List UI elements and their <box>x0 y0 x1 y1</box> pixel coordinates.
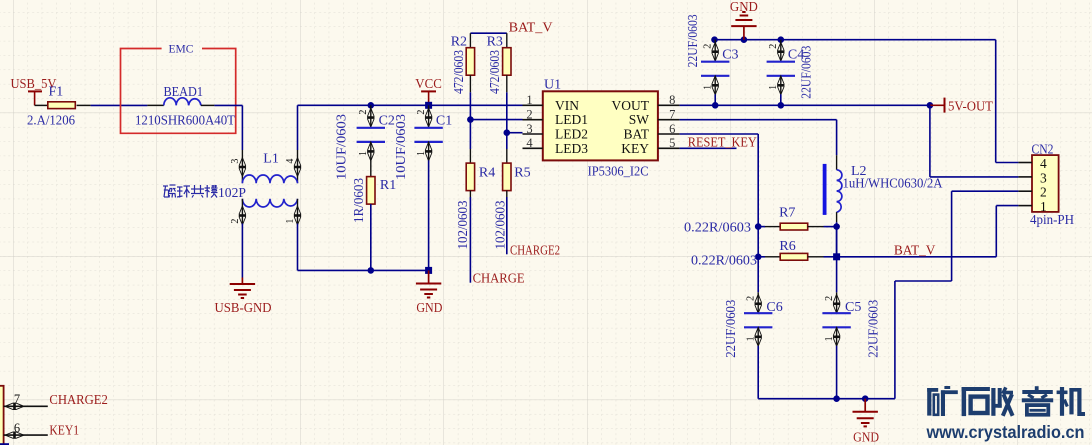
svg-text:2: 2 <box>746 296 757 301</box>
EMC box <box>121 49 236 134</box>
svg-text:1: 1 <box>358 151 369 156</box>
value 22UF/0603 <box>724 300 739 358</box>
svg-text:BAT_V: BAT_V <box>509 20 553 35</box>
svg-text:IP5306_I2C: IP5306_I2C <box>588 164 649 179</box>
power port USB_5V <box>11 77 57 105</box>
junction <box>711 36 718 43</box>
junction <box>712 102 719 109</box>
wire SW <box>680 120 837 156</box>
wire <box>757 257 759 293</box>
svg-text:BAT: BAT <box>623 127 649 142</box>
svg-text:CHARGE2: CHARGE2 <box>510 243 560 258</box>
net label CHARGE2 <box>510 243 560 258</box>
capacitor C1 <box>414 105 442 161</box>
svg-text:EMC: EMC <box>169 44 194 56</box>
wire CN2 pin1 to BAT_V <box>996 205 1018 207</box>
designator C3 <box>722 47 738 62</box>
svg-text:2: 2 <box>1040 185 1047 200</box>
junction <box>504 129 511 136</box>
value 472/0603 <box>452 50 467 94</box>
svg-text:3: 3 <box>1040 170 1047 185</box>
value 22UF/0603 <box>686 14 701 67</box>
resistor R5 <box>503 149 511 197</box>
junction <box>833 253 840 260</box>
ground GND bottom <box>853 399 880 445</box>
designator R7 <box>779 206 795 221</box>
CN2 pins <box>1018 156 1047 214</box>
svg-text:C6: C6 <box>766 300 782 315</box>
wire <box>836 257 838 293</box>
junction <box>833 395 840 402</box>
wire <box>836 222 838 226</box>
wire <box>506 133 508 149</box>
designator C1 <box>436 113 452 128</box>
capacitor C5 <box>822 292 850 346</box>
wire <box>77 104 148 106</box>
svg-text:7: 7 <box>669 107 675 121</box>
svg-text:BAT_V: BAT_V <box>894 243 936 258</box>
svg-text:2: 2 <box>768 44 779 49</box>
svg-text:BEAD1: BEAD1 <box>164 85 204 100</box>
inductor L1 <box>230 105 301 225</box>
wire BAT_V <box>837 206 997 257</box>
value 0.22R/0603 <box>684 220 751 235</box>
ground USB-GND <box>215 278 272 316</box>
wire <box>241 224 243 278</box>
svg-text:GND: GND <box>416 301 442 316</box>
svg-text:22UF/0603: 22UF/0603 <box>800 46 815 99</box>
resistor R4 <box>466 149 474 197</box>
svg-text:1: 1 <box>746 336 757 341</box>
svg-text:2: 2 <box>824 296 835 301</box>
designator C2 <box>379 113 395 128</box>
designator L2 <box>851 164 867 179</box>
svg-text:C5: C5 <box>845 300 861 315</box>
value 1uH/WHC0630/2A <box>843 177 944 192</box>
designator R5 <box>514 165 530 180</box>
watermark url <box>926 422 1085 442</box>
connector fragment <box>0 386 4 445</box>
svg-text:102P: 102P <box>218 186 246 201</box>
svg-text:SW: SW <box>629 112 650 127</box>
power port VCC <box>415 77 442 105</box>
value 102P <box>218 186 246 201</box>
capacitor C6 <box>744 292 772 346</box>
wire <box>470 32 506 34</box>
wire <box>428 160 430 270</box>
svg-text:8: 8 <box>669 93 675 107</box>
svg-text:R3: R3 <box>487 34 503 49</box>
svg-text:2: 2 <box>416 110 427 115</box>
pin 6 KEY1 <box>4 421 48 438</box>
watermark logo 矿石收音机 (drawn) <box>927 386 1085 416</box>
U1 pins <box>523 93 680 156</box>
svg-text:R2: R2 <box>451 34 467 49</box>
wire <box>370 204 372 270</box>
svg-text:U1: U1 <box>544 78 561 93</box>
resistor R3 <box>503 33 511 92</box>
svg-text:3: 3 <box>526 122 532 136</box>
svg-text:KEY1: KEY1 <box>49 423 79 438</box>
wire LED2 <box>507 132 523 134</box>
value 10UF/0603 <box>394 114 409 180</box>
junction <box>467 116 474 123</box>
wire <box>758 346 895 399</box>
value 磁环共模 (drawn) <box>163 185 218 198</box>
svg-text:GND: GND <box>853 430 879 445</box>
junction <box>425 267 432 274</box>
svg-text:6: 6 <box>669 122 675 136</box>
value 102/0603 <box>494 201 509 250</box>
wire CN2 pin3 to 5V-OUT <box>930 105 1019 177</box>
inductor L2 <box>823 155 842 222</box>
net label KEY1 <box>49 423 79 438</box>
junction <box>833 223 840 230</box>
svg-text:C1: C1 <box>436 113 452 128</box>
designator R4 <box>479 165 495 180</box>
svg-text:1: 1 <box>1040 199 1047 214</box>
wire GND rail <box>715 39 996 41</box>
svg-text:4: 4 <box>526 136 533 150</box>
wire <box>714 94 716 105</box>
wire <box>836 227 838 257</box>
designator F1 <box>49 85 64 100</box>
net label CHARGE <box>473 272 525 287</box>
svg-text:472/0603: 472/0603 <box>488 50 503 94</box>
svg-text:L1: L1 <box>263 152 279 167</box>
capacitor C2 <box>357 105 385 161</box>
net label BAT_V <box>509 20 553 35</box>
svg-text:4: 4 <box>1040 156 1047 171</box>
svg-text:GND: GND <box>730 0 758 15</box>
wire <box>469 120 471 149</box>
svg-text:4: 4 <box>285 159 296 164</box>
wire LED1 <box>470 119 522 121</box>
designator C5 <box>845 300 861 315</box>
ground GND <box>416 270 443 315</box>
wire CHARGE <box>469 197 471 283</box>
value IP5306_I2C <box>588 164 649 179</box>
svg-text:R6: R6 <box>779 239 795 254</box>
svg-text:1R/0603: 1R/0603 <box>352 178 367 223</box>
designator R3 <box>487 34 503 49</box>
junction <box>741 36 748 43</box>
junction <box>778 36 785 43</box>
power port 5V-OUT <box>930 98 994 115</box>
designator C4 <box>788 47 804 62</box>
svg-text:RESET_KEY: RESET_KEY <box>688 135 757 150</box>
wire <box>0 443 9 445</box>
wire CN2 pin2 to GND <box>895 191 1019 399</box>
wire <box>506 92 508 132</box>
resistor R6 <box>758 253 836 260</box>
wire <box>370 160 372 176</box>
svg-text:R4: R4 <box>479 165 495 180</box>
wire RESET_KEY <box>680 147 737 149</box>
connector CN2 body <box>1032 155 1059 212</box>
wire VIN rail <box>298 104 523 106</box>
net label BAT_V <box>894 243 936 258</box>
svg-text:LED1: LED1 <box>555 112 588 127</box>
designator BEAD1 <box>164 85 204 100</box>
designator R6 <box>779 239 795 254</box>
svg-text:0.22R/0603: 0.22R/0603 <box>684 220 751 235</box>
junction <box>862 395 869 402</box>
net label CHARGE2 <box>49 393 108 408</box>
svg-text:0.22R/0603: 0.22R/0603 <box>691 253 757 268</box>
value 472/0603 <box>488 50 503 94</box>
wire <box>35 104 48 106</box>
wire <box>836 227 838 257</box>
wire <box>780 94 782 105</box>
junction <box>368 102 375 109</box>
wire <box>214 105 242 150</box>
svg-text:C2: C2 <box>379 113 395 128</box>
value 2.A/1206 <box>27 114 75 129</box>
svg-text:C3: C3 <box>722 47 738 62</box>
IC U1 IP5306_I2C body <box>543 91 658 160</box>
svg-text:102/0603: 102/0603 <box>456 201 471 250</box>
designator R2 <box>451 34 467 49</box>
junction <box>755 253 762 260</box>
junction <box>755 223 762 230</box>
value 10UF/0603 <box>335 114 350 180</box>
wire <box>469 92 471 119</box>
ground GND top <box>730 0 758 40</box>
value 22UF/0603 <box>800 46 815 99</box>
svg-text:3: 3 <box>230 159 241 164</box>
resistor R1 <box>367 177 375 205</box>
svg-text:1uH/WHC0630/2A: 1uH/WHC0630/2A <box>843 177 944 192</box>
svg-text:22UF/0603: 22UF/0603 <box>724 300 739 358</box>
ferrite bead BEAD1 <box>147 98 214 106</box>
junction <box>927 102 934 109</box>
svg-text:R7: R7 <box>779 206 795 221</box>
svg-text:VIN: VIN <box>555 98 579 113</box>
svg-text:CHARGE2: CHARGE2 <box>49 393 108 408</box>
designator C6 <box>766 300 782 315</box>
svg-text:5V-OUT: 5V-OUT <box>948 100 993 115</box>
designator CN2 <box>1032 142 1054 157</box>
wire BAT <box>680 134 759 227</box>
svg-text:1: 1 <box>768 85 779 90</box>
resistor R7 <box>758 223 836 230</box>
svg-text:1: 1 <box>824 336 835 341</box>
svg-text:LED3: LED3 <box>555 141 588 156</box>
capacitor C4 <box>767 40 795 95</box>
svg-text:USB-GND: USB-GND <box>215 301 272 316</box>
svg-text:LED2: LED2 <box>555 127 588 142</box>
pin 7 CHARGE2 <box>4 392 48 409</box>
svg-text:2: 2 <box>358 110 369 115</box>
value 1210SHR600A40T <box>135 114 235 129</box>
svg-text:10UF/0603: 10UF/0603 <box>335 114 350 180</box>
resistor R2 <box>466 33 474 92</box>
svg-text:CHARGE: CHARGE <box>473 272 525 287</box>
svg-text:4pin-PH: 4pin-PH <box>1030 213 1074 228</box>
svg-text:2.A/1206: 2.A/1206 <box>27 114 75 129</box>
svg-text:KEY: KEY <box>621 141 649 156</box>
value 4pin-PH <box>1030 213 1074 228</box>
svg-text:R5: R5 <box>514 165 530 180</box>
svg-text:7: 7 <box>14 392 20 406</box>
label EMC <box>169 44 194 56</box>
svg-text:1210SHR600A40T: 1210SHR600A40T <box>135 114 235 129</box>
svg-text:2: 2 <box>230 219 241 224</box>
designator L1 <box>263 152 279 167</box>
svg-text:1: 1 <box>285 219 296 224</box>
value 0.22R/0603 <box>691 253 757 268</box>
svg-text:F1: F1 <box>49 85 64 100</box>
svg-text:10UF/0603: 10UF/0603 <box>394 114 409 180</box>
svg-text:2: 2 <box>703 44 714 49</box>
svg-text:6: 6 <box>14 421 20 435</box>
designator U1 <box>544 78 561 93</box>
wire <box>298 224 429 271</box>
value 102/0603 <box>456 201 471 250</box>
svg-text:1: 1 <box>703 85 714 90</box>
net label RESET_KEY <box>688 135 757 150</box>
svg-text:5: 5 <box>669 136 675 150</box>
value 22UF/0603 <box>867 300 882 358</box>
wire CN2 pin4 to GND <box>996 40 1019 163</box>
wire <box>757 227 759 257</box>
svg-text:472/0603: 472/0603 <box>452 50 467 94</box>
svg-text:1: 1 <box>526 93 532 107</box>
svg-text:VCC: VCC <box>415 77 442 92</box>
svg-text:VOUT: VOUT <box>612 98 650 113</box>
svg-text:22UF/0603: 22UF/0603 <box>867 300 882 358</box>
wire VOUT rail <box>680 104 930 106</box>
capacitor C3 <box>701 40 729 95</box>
junction <box>425 102 432 109</box>
fuse F1 <box>48 102 76 109</box>
junction <box>778 102 785 109</box>
svg-text:www.crystalradio.cn: www.crystalradio.cn <box>926 422 1085 442</box>
svg-text:1: 1 <box>416 151 427 156</box>
junction <box>368 267 375 274</box>
value 1R/0603 <box>352 178 367 223</box>
wire <box>836 346 838 399</box>
svg-text:2: 2 <box>526 107 532 121</box>
svg-text:22UF/0603: 22UF/0603 <box>686 14 701 67</box>
wire CHARGE2 <box>506 197 508 254</box>
designator R1 <box>380 178 396 193</box>
